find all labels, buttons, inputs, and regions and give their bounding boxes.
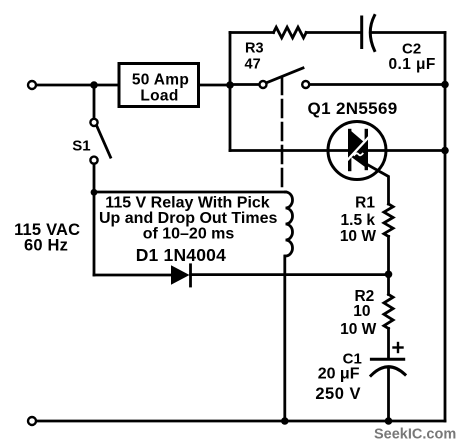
wire S1 to relay node — [93, 164, 96, 193]
wire contact to right rail — [309, 83, 445, 86]
wire vertical node B up to top rail — [229, 33, 232, 86]
node junction right rail top — [441, 81, 449, 89]
svg-text:Q1 2N5569: Q1 2N5569 — [308, 99, 398, 118]
relay contact right circle — [302, 81, 309, 88]
node D junction — [385, 271, 393, 279]
wire triac to right rail — [366, 149, 445, 152]
relay coil L1 — [286, 192, 293, 256]
svg-text:SeekIC.com: SeekIC.com — [374, 427, 456, 443]
wire top rail left segment — [230, 31, 274, 34]
triac Q1 — [328, 122, 386, 180]
50 Amp Load box — [119, 64, 199, 107]
node junction right rail mid — [441, 147, 449, 155]
svg-text:10: 10 — [353, 303, 370, 320]
gate wire — [366, 164, 388, 204]
svg-text:115 V Relay With Pick: 115 V Relay With Pick — [105, 194, 269, 211]
bottom rail — [37, 420, 446, 423]
switch S1 bottom circle — [90, 157, 97, 164]
switch S1 arm — [97, 127, 111, 158]
wire R2 to C1 — [387, 329, 390, 358]
wire relay node to coil — [94, 191, 286, 194]
wire C2 to right rail — [372, 31, 446, 34]
dashed mechanical link — [281, 77, 284, 188]
D1 wire right segment — [191, 273, 389, 276]
svg-text:D1 1N4004: D1 1N4004 — [136, 245, 226, 265]
wire top-left to load — [37, 84, 120, 87]
svg-text:47: 47 — [245, 56, 261, 72]
svg-text:C2: C2 — [402, 41, 421, 58]
resistor R1 — [384, 204, 393, 236]
capacitor C2 — [360, 17, 363, 48]
node junction coil-bottom rail — [281, 417, 289, 425]
relay contact arm — [267, 68, 303, 83]
svg-text:20 μF: 20 μF — [318, 365, 360, 382]
S1 branch: wire node A down — [93, 85, 96, 119]
diode D1 — [171, 265, 190, 284]
svg-text:50 Amp: 50 Amp — [132, 71, 189, 88]
capacitor C1 — [371, 358, 403, 361]
wire R1 to node D — [387, 236, 390, 274]
wire coil down to bottom rail — [283, 256, 286, 421]
node junction at S1 top — [90, 81, 98, 89]
svg-text:10 W: 10 W — [340, 321, 377, 338]
resistor R2 — [387, 274, 390, 294]
svg-text:0.1 μF: 0.1 μF — [389, 56, 436, 73]
switch S1 top circle — [90, 119, 97, 126]
relay contact left circle — [260, 81, 267, 88]
right rail — [444, 33, 447, 422]
node junction C1-bottom rail — [385, 417, 393, 425]
wire node B to triac — [230, 149, 350, 152]
svg-text:Up and Drop Out Times: Up and Drop Out Times — [99, 210, 277, 227]
svg-text:R1: R1 — [355, 195, 375, 212]
resistor R3 — [274, 27, 307, 38]
svg-text:250 V: 250 V — [315, 385, 361, 403]
wire load to node B — [199, 84, 230, 87]
svg-text:Load: Load — [140, 88, 178, 105]
svg-text:of 10–20 ms: of 10–20 ms — [143, 226, 235, 243]
wire R3 to C2 — [306, 31, 361, 34]
relay contact wire left — [230, 83, 259, 86]
terminal top-left — [28, 81, 36, 89]
wire C1 to bottom rail — [387, 368, 390, 421]
wire vertical node B down to triac wire — [229, 85, 232, 151]
terminal bottom-left — [28, 417, 36, 425]
svg-text:10 W: 10 W — [340, 228, 377, 245]
svg-text:1.5 k: 1.5 k — [341, 212, 376, 229]
svg-text:R3: R3 — [245, 41, 264, 57]
node B junction — [226, 81, 234, 89]
svg-text:60 Hz: 60 Hz — [24, 237, 68, 255]
wire down to D1 wire — [93, 192, 96, 275]
svg-text:S1: S1 — [72, 138, 90, 155]
D1 wire left segment — [94, 274, 171, 277]
node relay-top junction — [91, 189, 98, 196]
